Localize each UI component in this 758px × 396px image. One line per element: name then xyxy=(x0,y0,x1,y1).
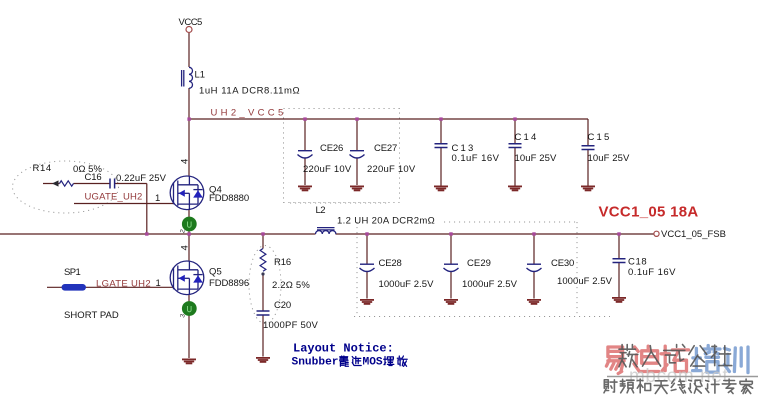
svg-text:0.1uF 16V: 0.1uF 16V xyxy=(452,153,500,164)
svg-text:4: 4 xyxy=(180,159,191,164)
svg-text:MOS: MOS xyxy=(363,357,383,369)
svg-text:R16: R16 xyxy=(274,257,291,268)
svg-text:0.1uF 16V: 0.1uF 16V xyxy=(628,267,676,278)
svg-text:UGATE_UH2: UGATE_UH2 xyxy=(85,192,143,203)
svg-text:220uF 10V: 220uF 10V xyxy=(303,164,352,175)
svg-text:L1: L1 xyxy=(195,70,206,81)
svg-text:1uH 11A DCR8.11mΩ: 1uH 11A DCR8.11mΩ xyxy=(199,86,300,97)
svg-text:LGATE UH2: LGATE UH2 xyxy=(96,279,151,290)
svg-text:CE27: CE27 xyxy=(374,143,397,154)
svg-text:FDD8880: FDD8880 xyxy=(209,193,249,204)
svg-text:1.2 UH 20A DCR2mΩ: 1.2 UH 20A DCR2mΩ xyxy=(337,216,435,227)
svg-text:10uF 25V: 10uF 25V xyxy=(588,153,631,164)
svg-text:VCC5: VCC5 xyxy=(179,17,203,28)
svg-text:Q5: Q5 xyxy=(209,267,222,278)
svg-text:1: 1 xyxy=(156,278,161,289)
svg-text:2.2Ω 5%: 2.2Ω 5% xyxy=(272,280,310,291)
svg-text:0.22uF 25V: 0.22uF 25V xyxy=(116,173,167,184)
svg-text:1: 1 xyxy=(155,193,160,204)
svg-text:CE29: CE29 xyxy=(467,258,491,269)
svg-text:CE28: CE28 xyxy=(379,258,402,269)
svg-text:L2: L2 xyxy=(316,205,326,216)
svg-text:Layout Notice:: Layout Notice: xyxy=(293,342,394,356)
svg-text:CE30: CE30 xyxy=(551,258,574,269)
svg-text:10uF 25V: 10uF 25V xyxy=(515,153,558,164)
svg-text:Snubber: Snubber xyxy=(292,357,339,369)
svg-text:220uF 10V: 220uF 10V xyxy=(367,164,416,175)
svg-text:UH2_VCC5: UH2_VCC5 xyxy=(211,108,287,119)
svg-text:C14: C14 xyxy=(515,132,539,143)
svg-text:VCC1_05 18A: VCC1_05 18A xyxy=(599,204,699,221)
svg-text:R14: R14 xyxy=(33,163,52,174)
svg-text:1000uF 2.5V: 1000uF 2.5V xyxy=(462,279,518,290)
svg-text:SHORT PAD: SHORT PAD xyxy=(64,310,119,321)
svg-text:C15: C15 xyxy=(588,132,612,143)
svg-text:C20: C20 xyxy=(274,300,291,311)
svg-text:C18: C18 xyxy=(628,257,647,268)
svg-text:FDD8896: FDD8896 xyxy=(209,278,249,289)
svg-text:1000PF 50V: 1000PF 50V xyxy=(263,320,318,331)
svg-text:VCC1_05_FSB: VCC1_05_FSB xyxy=(661,229,726,240)
svg-text:1000uF 2.5V: 1000uF 2.5V xyxy=(379,279,435,290)
svg-text:C16: C16 xyxy=(85,172,102,183)
svg-text:CE26: CE26 xyxy=(320,143,343,154)
svg-text:SP1: SP1 xyxy=(64,267,80,278)
svg-text:4: 4 xyxy=(180,245,191,250)
svg-text:1000uF 2.5V: 1000uF 2.5V xyxy=(557,276,613,287)
